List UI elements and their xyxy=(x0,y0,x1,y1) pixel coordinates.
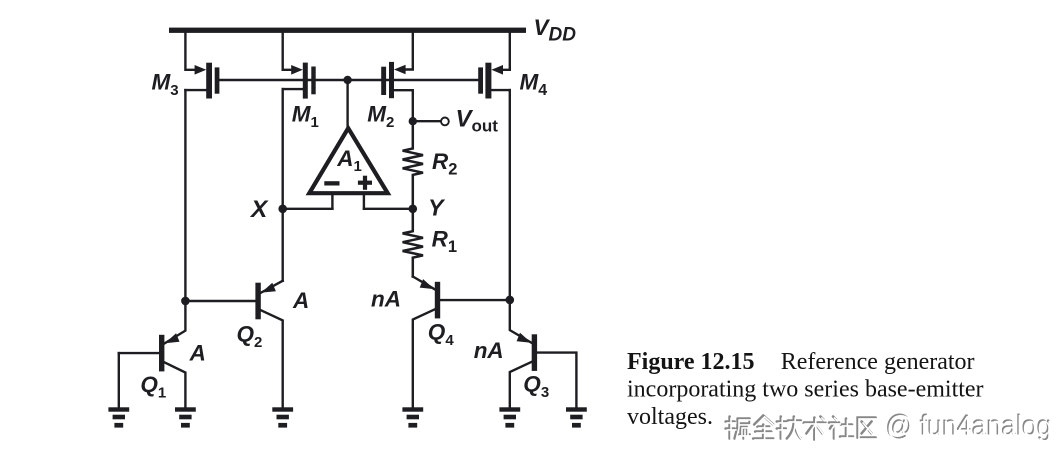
ground Q3 base xyxy=(566,407,587,427)
svg-text:Reference generator: Reference generator xyxy=(781,349,975,375)
wire gate bus M3-M1-M2-M4 xyxy=(219,79,478,81)
transistor M4 xyxy=(478,63,510,99)
ground Q2 collector xyxy=(272,407,293,427)
svg-text:nA: nA xyxy=(474,338,504,363)
Vout terminal circle xyxy=(441,118,449,126)
wire M4 source from VDD xyxy=(500,33,510,70)
wire M3 source from VDD xyxy=(185,33,197,70)
wire op-amp output to gate node xyxy=(346,80,348,130)
resistor R1 xyxy=(403,209,423,277)
node right mirror (M4 drain / Q3 emitter / Q4 base) xyxy=(506,296,515,305)
wire R1 to Q4 emitter xyxy=(413,277,435,290)
op-amp A1 xyxy=(309,128,387,209)
node left mirror (M3 drain / Q1 emitter / Q2 base) xyxy=(181,297,190,306)
wire M1 source from VDD xyxy=(283,33,294,70)
ground Q4 collector xyxy=(402,407,423,427)
svg-text:Y: Y xyxy=(428,195,446,221)
svg-text:X: X xyxy=(249,196,269,223)
wire M2 source from VDD xyxy=(402,33,413,70)
watermark xyxy=(726,410,1053,443)
ground Q1 collector xyxy=(175,407,196,427)
wire M4 drain down to right mirror node xyxy=(509,90,511,300)
transistor M2 xyxy=(381,62,413,98)
wire Vout node to terminal xyxy=(413,120,441,122)
svg-text:Figure 12.15: Figure 12.15 xyxy=(627,349,755,375)
svg-text:A: A xyxy=(292,288,309,313)
transistor Q4 xyxy=(413,279,440,407)
svg-text:nA: nA xyxy=(371,287,401,312)
svg-text:A: A xyxy=(189,341,206,366)
transistor M3 xyxy=(185,63,219,99)
ground Q1 base xyxy=(108,407,129,427)
node Vout junction xyxy=(409,117,417,125)
VDD rail xyxy=(169,28,526,33)
wire Y node to op-amp non-inverting input xyxy=(364,208,413,210)
transistor Q1 xyxy=(119,301,186,407)
node X xyxy=(278,205,287,214)
node Y xyxy=(409,205,418,214)
node gate bus junction xyxy=(343,76,351,84)
wire M3 drain down to mirror node xyxy=(184,90,186,301)
svg-text:incorporating two series base-: incorporating two series base-emitter xyxy=(627,377,984,403)
resistor R2 xyxy=(403,121,423,209)
wire Q4 base to right node xyxy=(440,299,510,301)
svg-text:voltages.: voltages. xyxy=(627,404,713,430)
wire X node to op-amp inverting input xyxy=(283,208,333,210)
wire left node to Q2 base xyxy=(185,300,255,302)
wire M1 drain down through X to Q2 emitter xyxy=(282,89,284,281)
svg-text:@ fun4analog: @ fun4analog xyxy=(886,411,1052,443)
wire M2 drain down to Vout node xyxy=(412,90,414,121)
transistor M1 xyxy=(283,63,316,99)
transistor Q2 xyxy=(255,281,282,408)
ground Q3 collector xyxy=(499,407,520,427)
transistor Q3 xyxy=(510,300,577,407)
